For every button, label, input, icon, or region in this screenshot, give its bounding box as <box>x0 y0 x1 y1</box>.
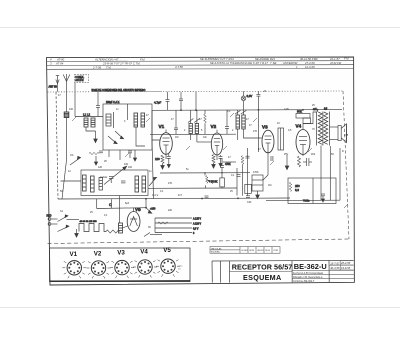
svg-text:40 60 90 125 150: 40 60 90 125 150 <box>80 221 98 223</box>
dropper cap mid <box>166 92 170 111</box>
svg-text:mH: mH <box>313 109 317 111</box>
riser bus to rectifier <box>145 199 147 208</box>
RF band box <box>103 104 152 150</box>
svg-text:C32: C32 <box>247 201 252 204</box>
wire: top horizontal to RF box <box>75 116 103 118</box>
header revision row 3 <box>92 65 315 70</box>
value label speckle <box>58 90 349 229</box>
chassis dashed bottom edge <box>48 239 350 244</box>
grid leak cap <box>220 158 224 173</box>
rectifier output arrow <box>146 208 152 214</box>
svg-text:RED: RED <box>47 216 52 218</box>
svg-text:100: 100 <box>128 166 133 169</box>
tuning cap C2 <box>121 181 126 183</box>
feedback arrow <box>285 155 289 170</box>
svg-text:25V: 25V <box>284 153 289 156</box>
svg-text:19-6-58: 19-6-58 <box>341 266 351 270</box>
svg-text:CONEX.: CONEX. <box>75 77 84 79</box>
RF box switch arm 1 <box>108 136 117 144</box>
tube V5 <box>127 208 140 232</box>
svg-text:padder: padder <box>100 176 108 179</box>
svg-text:V2: V2 <box>211 124 217 129</box>
RF box bottom wires <box>119 150 121 160</box>
svg-text:1M: 1M <box>268 184 271 187</box>
sheet border <box>47 57 355 285</box>
svg-text:28-2-58: 28-2-58 <box>340 261 351 265</box>
svg-text:50K: 50K <box>297 110 302 114</box>
svg-text:15-7-57: 15-7-57 <box>330 261 340 265</box>
V2 bypass cap <box>219 155 223 161</box>
transformer top wires <box>303 110 318 124</box>
svg-text:100pF C.A.V.: 100pF C.A.V. <box>106 101 120 104</box>
riser left <box>96 199 98 209</box>
filter choke <box>119 223 123 233</box>
svg-text:470K: 470K <box>225 163 231 166</box>
pilot lamp <box>241 91 246 110</box>
svg-text:0,05: 0,05 <box>284 108 289 111</box>
svg-text:UL84: UL84 <box>265 250 271 252</box>
tube V1 <box>160 130 173 160</box>
receptor cell midline <box>230 270 293 272</box>
AC plug <box>48 218 57 226</box>
svg-text:AT 84: AT 84 <box>55 62 64 66</box>
svg-text:RECEPTOR 56/57: RECEPTOR 56/57 <box>232 262 292 271</box>
svg-text:UF89: UF89 <box>249 250 255 252</box>
V3 grid cap <box>237 175 241 177</box>
osc top cluster 2 <box>128 150 137 161</box>
V2 cathode resistor <box>212 155 215 164</box>
wire screen V2 <box>223 161 236 163</box>
svg-text:V5: V5 <box>135 207 141 212</box>
ground under coils <box>94 131 98 143</box>
svg-text:F.M.: F.M. <box>140 57 145 61</box>
svg-text:UBC81: UBC81 <box>257 250 265 252</box>
detector load box <box>245 184 252 193</box>
T2 wires <box>238 110 262 140</box>
title right divider <box>340 261 342 271</box>
svg-text:Fecha 12-4-56 Comprobado: Fecha 12-4-56 Comprobado <box>293 272 324 275</box>
bottom switch <box>144 233 162 237</box>
mains switch arm 1 <box>58 215 80 222</box>
wire: lead 3 <box>74 83 76 117</box>
svg-text:A 125 V: A 125 V <box>193 218 202 221</box>
V4 cathode resistor <box>298 156 301 167</box>
wire: antenna lead 2 <box>66 92 68 112</box>
coupling coil pair <box>84 118 95 127</box>
socket V4 <box>133 260 157 278</box>
detector cap <box>246 156 250 158</box>
svg-text:100: 100 <box>69 108 74 111</box>
svg-text:6,3V: 6,3V <box>247 94 253 98</box>
svg-text:ESQUEMA: ESQUEMA <box>243 273 281 282</box>
audio bus junctions <box>204 172 223 174</box>
BE cell rule 3 <box>292 277 354 279</box>
socket V3 <box>110 260 134 278</box>
RF box inner vertical <box>127 104 129 120</box>
svg-text:UCH81: UCH81 <box>241 250 249 252</box>
AF coupling box <box>220 173 225 188</box>
tube V2 <box>211 130 222 160</box>
wire: antenna lead 1 (dashed vertical) <box>56 92 58 199</box>
AVC cap <box>205 196 251 198</box>
svg-text:4,7pF: 4,7pF <box>154 101 161 105</box>
chassis dashed top-left segment <box>48 91 91 93</box>
T1 trimmer arrows <box>188 119 200 123</box>
V1 cathode resistor <box>161 155 164 164</box>
svg-text:10n: 10n <box>203 136 208 139</box>
svg-text:SE AJUSTA LA TOLERANCIA DE: SE AJUSTA LA TOLERANCIA DE C.28 Y R.17 <box>210 61 268 65</box>
svg-text:ANT.FM: ANT.FM <box>75 79 83 82</box>
V4 bypass cap <box>303 158 312 166</box>
voltmeter cap <box>321 194 325 202</box>
svg-text:12-3-56: 12-3-56 <box>305 65 315 69</box>
svg-text:VALVULAS: VALVULAS <box>211 247 222 250</box>
bus junction dots <box>180 109 318 111</box>
svg-text:EQUIVAL.: EQUIVAL. <box>211 251 221 254</box>
svg-text:OC: OC <box>70 154 74 157</box>
svg-text:+190: +190 <box>150 208 156 211</box>
revision strip box <box>210 247 280 254</box>
svg-text:A 220 V: A 220 V <box>193 223 202 226</box>
svg-text:6,3: 6,3 <box>295 188 299 192</box>
screen bypass cap V2 <box>225 110 229 134</box>
antenna coil L1 <box>64 112 69 118</box>
svg-text:D: D <box>342 150 344 153</box>
wire AVC riser <box>152 140 154 199</box>
svg-text:Dibujado J.M. Reemplaza a: Dibujado J.M. Reemplaza a <box>293 276 323 279</box>
dropper from chassis top to bus 2 <box>195 92 197 110</box>
svg-text:ANT 9B: ANT 9B <box>49 86 58 89</box>
grid stopper resistor <box>296 110 310 119</box>
osc left wire <box>61 180 82 182</box>
tuning cap C1 <box>109 177 114 184</box>
ballast resistor <box>79 224 106 232</box>
svg-text:BASE DE CONEXIONES DEL CIR: BASE DE CONEXIONES DEL CIRCUITO IMPRESO <box>92 89 146 92</box>
svg-text:inf.: inf. <box>178 268 181 270</box>
B+ bus <box>152 109 342 112</box>
socket V5 <box>156 259 180 277</box>
header rule 2 <box>47 64 354 67</box>
V3 cathode resistor <box>241 156 244 196</box>
ground below switch <box>75 229 79 237</box>
detector diode wire <box>237 148 248 196</box>
header rule 1 <box>47 60 354 63</box>
osc coil pair B <box>135 176 146 192</box>
svg-text:2-7-56: 2-7-56 <box>92 65 102 69</box>
output transformer secondary <box>324 112 330 146</box>
svg-text:vista: vista <box>178 265 183 268</box>
detector bus wire <box>148 187 237 189</box>
svg-text:UY85: UY85 <box>273 250 279 252</box>
V2 cap ground arrow <box>219 161 222 167</box>
wire: antenna lead 2 lower <box>62 118 67 200</box>
svg-text:AT-M FM: AT-M FM <box>329 61 342 65</box>
title date hatch <box>330 265 354 270</box>
grid bus line <box>150 133 236 135</box>
title divider 3 <box>291 261 293 283</box>
header revision row 1 <box>50 56 349 62</box>
svg-text:220: 220 <box>168 209 173 212</box>
svg-text:T.M.: T.M. <box>106 65 112 69</box>
svg-text:47K: 47K <box>168 182 173 185</box>
IF transformer T2 <box>236 115 245 129</box>
oscillator box <box>81 170 148 196</box>
svg-text:Y SE: Y SE <box>270 61 276 65</box>
svg-text:BE-362-U: BE-362-U <box>294 262 327 271</box>
header rule 3 <box>47 68 354 71</box>
tube V4 <box>296 124 310 157</box>
svg-text:6,3 V: 6,3 V <box>193 229 199 231</box>
screen resistor V2 <box>204 110 207 134</box>
svg-text:Conforme BE-362-T: Conforme BE-362-T <box>293 280 315 283</box>
tone box ground <box>256 191 260 199</box>
series resistor <box>106 230 120 233</box>
osc switch arm <box>149 177 157 186</box>
scan streak bottom <box>0 307 400 309</box>
svg-text:C.A.V.: C.A.V. <box>152 194 159 197</box>
IF transformer T1 <box>189 124 199 134</box>
svg-text:V1: V1 <box>159 124 165 129</box>
T2 trimmer arrows <box>235 111 246 115</box>
wire under coils <box>86 127 96 131</box>
wire choke to V5 <box>123 226 128 228</box>
title divider 1 <box>220 261 222 283</box>
svg-text:+B: +B <box>263 90 266 93</box>
svg-text:V4: V4 <box>296 124 302 129</box>
AVC junction dots <box>145 197 239 199</box>
volume pot resistor <box>205 173 213 188</box>
band switch arms upper <box>70 156 81 165</box>
riser osc box to choke <box>119 196 121 223</box>
svg-text:Volts: Volts <box>303 199 310 203</box>
output transformer primary <box>317 112 323 146</box>
AVC bus wire <box>58 198 290 199</box>
tube V3 <box>262 130 274 158</box>
osc coil pair A <box>83 175 95 192</box>
svg-text:V5: V5 <box>163 247 171 254</box>
tuning gang arrow <box>104 166 127 184</box>
bottom right horizontal <box>266 199 340 201</box>
speaker wires <box>330 127 339 140</box>
svg-text:220: 220 <box>155 157 160 161</box>
antenna A1 <box>56 76 59 92</box>
RF box coil pair <box>134 113 145 127</box>
svg-text:4-T.58: 4-T.58 <box>175 65 183 69</box>
output transformer core <box>322 112 324 146</box>
V1 ground arrow <box>161 164 165 170</box>
title block frame <box>212 259 354 262</box>
svg-text:2K2: 2K2 <box>311 153 316 156</box>
svg-text:12K: 12K <box>98 166 103 169</box>
right cell midrule <box>329 264 354 266</box>
heater terminal lines <box>155 218 192 233</box>
V1 cap ground arrow <box>167 162 170 168</box>
V2 ground arrow <box>212 163 216 168</box>
svg-text:8µF: 8µF <box>125 202 130 205</box>
antenna coupling cap <box>96 92 100 117</box>
svg-text:V2: V2 <box>94 250 102 257</box>
rectifier top wire <box>97 207 146 210</box>
revision strip text <box>211 247 279 253</box>
mains switch arm 2 <box>58 225 70 231</box>
svg-text:500K: 500K <box>211 180 218 184</box>
BE cell rule 1 <box>292 269 354 271</box>
scan streak top <box>0 27 400 29</box>
note box (dashed) <box>75 75 89 83</box>
speaker <box>338 124 346 143</box>
title divider 2 <box>228 261 230 283</box>
svg-text:V1: V1 <box>70 251 78 258</box>
secondary verticals down <box>321 146 340 201</box>
svg-text:47K: 47K <box>253 130 258 133</box>
trimmer arrow marks <box>72 113 348 208</box>
junction dot rectifier <box>145 207 147 209</box>
tone box <box>252 175 263 191</box>
T1 connecting wires <box>191 110 212 142</box>
title divider 4 <box>328 261 330 283</box>
header revision row 2 <box>50 61 342 66</box>
voltmeter box <box>288 178 336 204</box>
svg-text:V3: V3 <box>262 125 268 130</box>
svg-text:470K: 470K <box>253 171 259 174</box>
svg-text:V4: V4 <box>140 248 148 255</box>
svg-text:1M: 1M <box>175 136 178 139</box>
chassis dashed top-right segment <box>163 90 343 93</box>
antenna A2 <box>63 74 70 92</box>
dropper from chassis top to bus 1 <box>179 92 183 110</box>
wire bus to V1 grid <box>152 110 160 140</box>
RF box switch arm 2 <box>115 131 124 139</box>
V3 anode cap <box>263 156 273 180</box>
RF box inner cluster <box>106 112 114 128</box>
osc top cluster 1 <box>89 151 103 165</box>
svg-text:30-4-58: 30-4-58 <box>330 266 340 270</box>
svg-text:L1 L2: L1 L2 <box>83 113 90 117</box>
V1 bypass cap <box>167 154 171 162</box>
BE cell rule 2 <box>292 273 354 275</box>
svg-text:F.M.: F.M. <box>344 57 349 61</box>
socket V1 <box>62 261 86 279</box>
coupling cap box <box>278 128 284 150</box>
socket panel box <box>50 248 191 282</box>
coupling box <box>303 118 311 124</box>
socket V2 <box>87 261 111 279</box>
svg-text:4n7: 4n7 <box>178 194 183 197</box>
V1 screen cap <box>174 110 178 134</box>
osc box inner coil <box>99 178 102 191</box>
audio bus wire <box>160 172 250 174</box>
riser mid <box>111 199 113 208</box>
AVC dropper <box>256 91 260 152</box>
svg-text:V3: V3 <box>117 249 125 256</box>
svg-text:Z=5: Z=5 <box>344 134 349 137</box>
chassis dashed right edge <box>343 91 349 239</box>
